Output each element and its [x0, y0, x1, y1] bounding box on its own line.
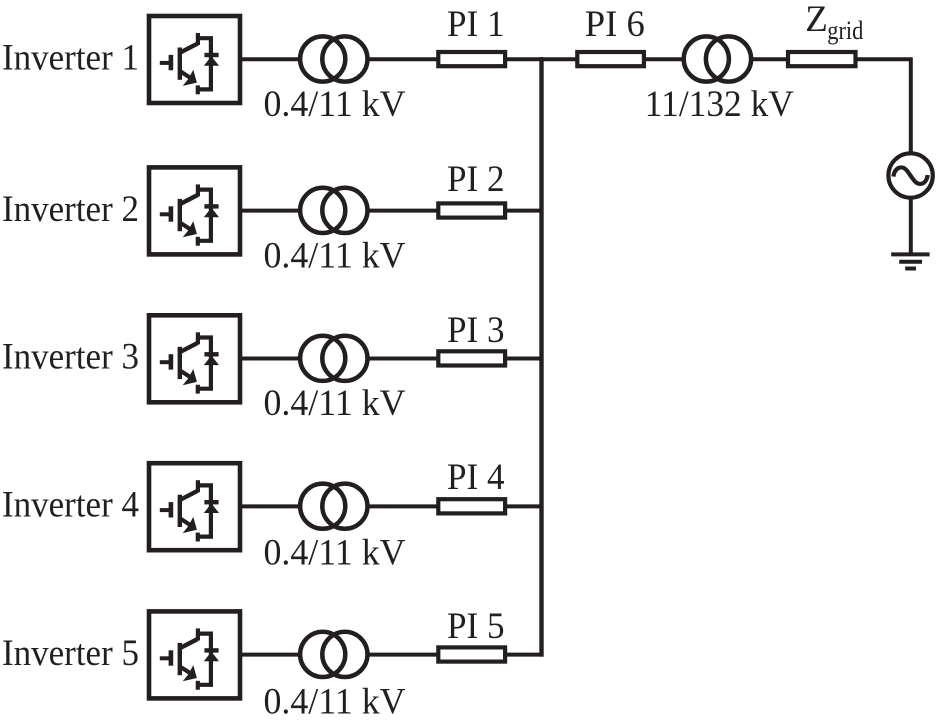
svg-text:PI 1: PI 1: [447, 4, 505, 45]
svg-text:0.4/11 kV: 0.4/11 kV: [264, 533, 406, 574]
freewheeling diode D5: [204, 650, 219, 661]
11 kV collection bus (vertical): [539, 57, 543, 656]
IGBT Q5 (inside inverter 5): [160, 628, 211, 689]
svg-text:Inverter 2: Inverter 2: [2, 189, 139, 230]
PI 2 line-section box: [438, 203, 505, 217]
svg-text:Inverter 3: Inverter 3: [2, 337, 139, 378]
freewheeling diode D2: [204, 206, 219, 217]
svg-text:grid: grid: [827, 16, 863, 45]
svg-text:0.4/11 kV: 0.4/11 kV: [264, 84, 406, 125]
inverter 3 box: [149, 315, 240, 402]
wire source to ground: [909, 198, 913, 255]
AC grid source: [888, 153, 932, 197]
wire bus to PI 6: [541, 57, 578, 61]
svg-text:Inverter 4: Inverter 4: [2, 485, 139, 526]
wire PI 3 to 11 kV bus: [505, 357, 544, 361]
inverter 5 box: [149, 611, 240, 698]
transformer T5 0.4/11 kV (two overlapping circles): [300, 632, 367, 677]
PI 4 line-section box: [438, 499, 505, 513]
inverter 2 box: [149, 167, 240, 254]
freewheeling diode D4: [204, 502, 219, 513]
svg-text:PI 2: PI 2: [447, 159, 505, 200]
wire transformer T3 to PI 3: [367, 357, 439, 361]
IGBT Q1 (inside inverter 1): [160, 33, 211, 94]
IGBT Q2 (inside inverter 2): [160, 184, 211, 245]
IGBT Q3 (inside inverter 3): [160, 332, 211, 393]
ground symbol: [891, 254, 929, 268]
svg-text:PI 4: PI 4: [447, 457, 505, 498]
wire inverter 3 output to transformer T3: [240, 357, 301, 361]
transformer T2 0.4/11 kV (two overlapping circles): [300, 188, 367, 233]
wire PI 4 to 11 kV bus: [505, 504, 544, 508]
wire PI 6 to transformer T6: [644, 57, 686, 61]
svg-text:PI 6: PI 6: [585, 4, 645, 45]
svg-text:Inverter 1: Inverter 1: [2, 37, 139, 78]
svg-text:PI 5: PI 5: [447, 606, 505, 647]
freewheeling diode D3: [204, 354, 219, 365]
impedance Z_grid box: [788, 52, 856, 66]
inverter 1 box: [149, 16, 240, 103]
PI 3 line-section box: [438, 351, 505, 365]
PI 6 line-section box: [577, 52, 644, 66]
wire transformer T2 to PI 2: [367, 209, 439, 213]
wire inverter 5 output to transformer T5: [240, 653, 301, 657]
freewheeling diode D1: [204, 55, 219, 66]
wire transformer T5 to PI 5: [367, 653, 439, 657]
wire transformer T4 to PI 4: [367, 504, 439, 508]
wire inverter 4 output to transformer T4: [240, 504, 301, 508]
svg-text:11/132 kV: 11/132 kV: [645, 84, 794, 125]
wire PI 2 to 11 kV bus: [505, 209, 544, 213]
transformer T3 0.4/11 kV (two overlapping circles): [300, 336, 367, 381]
svg-text:Inverter 5: Inverter 5: [2, 633, 139, 674]
svg-text:0.4/11 kV: 0.4/11 kV: [264, 236, 406, 277]
wire transformer T1 to PI 1: [367, 57, 439, 61]
wire inverter 1 output to transformer T1: [240, 57, 301, 61]
svg-text:Z: Z: [805, 0, 828, 40]
wire PI 1 to 11 kV bus: [505, 57, 544, 61]
transformer T1 0.4/11 kV (two overlapping circles): [300, 36, 367, 81]
transformer T6 11/132 kV (two overlapping circles): [684, 36, 751, 81]
inverter 4 box: [149, 463, 240, 550]
svg-text:PI 3: PI 3: [447, 310, 505, 351]
svg-text:0.4/11 kV: 0.4/11 kV: [264, 681, 406, 722]
IGBT Q4 (inside inverter 4): [160, 480, 211, 541]
wire Z_grid to grid source corner: [854, 59, 911, 153]
svg-text:0.4/11 kV: 0.4/11 kV: [264, 383, 406, 424]
sine wave inside source: [893, 167, 927, 184]
wire PI 5 to 11 kV bus: [505, 653, 544, 657]
wire transformer T6 to Z_grid: [751, 57, 789, 61]
transformer T4 0.4/11 kV (two overlapping circles): [300, 484, 367, 529]
PI 1 line-section box: [438, 52, 505, 66]
PI 5 line-section box: [438, 647, 505, 661]
wire inverter 2 output to transformer T2: [240, 209, 301, 213]
